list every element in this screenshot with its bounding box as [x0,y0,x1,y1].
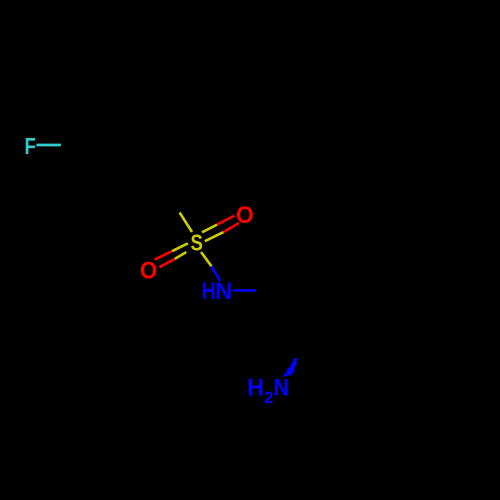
svg-text:N: N [215,278,232,305]
svg-text:2: 2 [264,389,273,407]
svg-text:H: H [202,278,216,305]
svg-text:O: O [140,258,157,285]
svg-text:S: S [191,229,203,255]
svg-text:O: O [236,202,254,229]
svg-text:F: F [24,133,35,159]
svg-text:H: H [247,375,264,401]
svg-text:N: N [274,375,289,401]
